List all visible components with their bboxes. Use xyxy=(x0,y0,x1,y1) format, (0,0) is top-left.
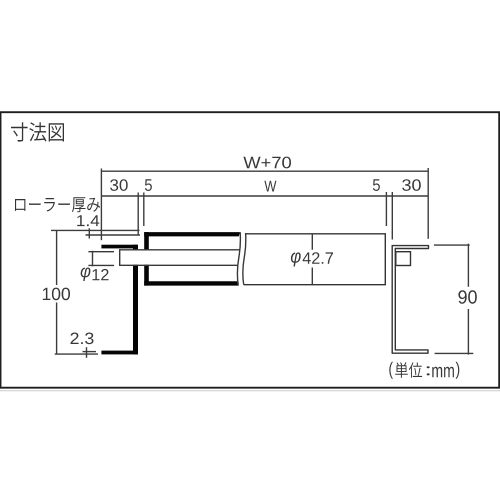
label 5 left xyxy=(145,179,152,191)
dimension line 100 vertical xyxy=(56,230,58,285)
extension line frame outer left xyxy=(100,169,102,241)
left frame bottom flange (thick) xyxy=(101,351,138,355)
title 寸法図 xyxy=(11,122,64,141)
left frame top flange (thick) xyxy=(101,245,137,249)
roller thickness extension line upper xyxy=(51,229,140,231)
unit note open paren xyxy=(389,362,393,379)
label 100 xyxy=(43,288,70,301)
label 30 left xyxy=(110,179,128,191)
extension line right frame bottom xyxy=(435,352,474,354)
outer border frame of drawing xyxy=(1,112,500,388)
axle stub left outline xyxy=(88,251,114,253)
unit note colon xyxy=(427,366,430,375)
unit note mm xyxy=(432,367,454,377)
scan artifact line below frame xyxy=(0,390,500,392)
unit note 単位 xyxy=(395,362,422,378)
pipe break symbol (white band) xyxy=(237,232,245,285)
tick mark 2.3 xyxy=(86,347,88,358)
extension line frame bottom left xyxy=(55,353,98,355)
extension line frame outer right xyxy=(427,168,429,239)
extension line flange top surface 2.3 xyxy=(83,351,97,353)
label 30 right xyxy=(402,179,421,191)
dimension line phi12 xyxy=(92,251,94,266)
right frame channel outline xyxy=(392,246,428,354)
left frame web (thick) xyxy=(133,245,138,355)
label ローラー厚み xyxy=(15,197,100,212)
label 5 right xyxy=(373,179,380,191)
roller tube bottom wall (thick) xyxy=(144,281,238,285)
label 90 xyxy=(458,290,476,303)
label W+70 xyxy=(243,157,291,169)
pipe break right curve xyxy=(243,233,246,285)
label phi12 xyxy=(81,268,91,282)
extension line web inner left xyxy=(137,193,139,236)
dimension line 90 vertical xyxy=(467,244,469,287)
extension line roller left end xyxy=(143,193,145,227)
roller tube right part outline xyxy=(244,234,386,285)
roller tube top wall (thick) xyxy=(144,232,240,236)
extension line roller right end xyxy=(385,192,387,226)
tick mark 1.4 xyxy=(88,228,90,238)
roller tube left cap (thick) xyxy=(144,232,149,286)
dimension line phi42.7 xyxy=(311,234,313,250)
label W xyxy=(264,181,276,192)
roller thickness extension line lower xyxy=(86,234,141,236)
label 2.3 xyxy=(71,333,94,345)
pipe break left curve xyxy=(237,232,240,285)
right axle stub box xyxy=(396,252,411,266)
unit note close paren xyxy=(456,362,460,379)
dimension line W+70 xyxy=(101,170,428,172)
axle main rod (white over web and cap) xyxy=(120,250,240,264)
dimension line 30/5/W/5/30 xyxy=(101,195,428,197)
extension line web inner right xyxy=(391,192,393,240)
label 1.4 xyxy=(77,215,99,226)
extension line right frame top xyxy=(434,244,470,246)
label phi42.7 xyxy=(291,252,301,266)
